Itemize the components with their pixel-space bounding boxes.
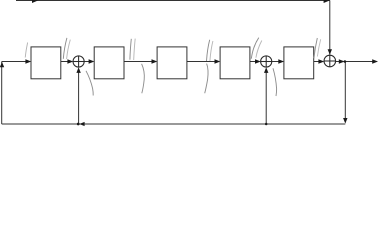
wire: right feedback vertical	[344, 62, 346, 120]
XOR U1	[73, 56, 84, 67]
arrowhead on top line	[32, 0, 38, 3]
wire: junction to output	[345, 61, 374, 63]
wire: left feedback vertical	[1, 62, 3, 125]
arrowhead up into XOR U2	[264, 67, 268, 73]
wire: XOR U1 to Z2	[84, 61, 89, 63]
arrowhead down into XOR U3	[328, 49, 332, 55]
wire: Z4 to XOR U2	[250, 61, 256, 63]
register Z3	[157, 47, 187, 79]
junction dot on bottom line below XOR U1	[77, 123, 80, 126]
tap slash pair after register Z4	[251, 38, 258, 59]
register Z1	[31, 47, 61, 79]
wire: Z3 to Z4	[187, 61, 216, 63]
wire: riser to XOR U1	[78, 72, 80, 124]
arrowhead into register Z5	[278, 59, 284, 63]
XOR U3	[324, 55, 336, 67]
wire: riser to XOR U2	[265, 72, 267, 124]
arrowhead on top line before corner	[324, 0, 330, 3]
arrowhead at output junction	[339, 59, 345, 63]
wire: bottom feedback line	[2, 123, 346, 125]
tap slash after register Z5	[314, 38, 317, 58]
register Z5	[284, 47, 314, 79]
tap slash lower arc before register Z5	[273, 68, 277, 96]
wire: XOR U2 to Z5	[272, 61, 280, 63]
tap slash lower arc before register Z2	[86, 71, 93, 96]
tap slash pair after register Z2	[130, 39, 131, 60]
faint tap slash before register Z1	[25, 43, 27, 58]
junction dot on bottom line below XOR U2	[265, 123, 268, 126]
tap slash pair after register Z1	[63, 38, 67, 59]
arrowhead at output end	[372, 59, 378, 63]
tap slash lower arc before register Z4	[205, 64, 208, 94]
wire: input segment into register Z1	[2, 61, 27, 63]
arrowhead left on bottom line at junction	[79, 122, 84, 126]
tap slash lower arc before register Z3	[142, 64, 145, 93]
junction dot at output split	[344, 60, 347, 63]
XOR U2	[261, 56, 272, 67]
arrowhead into register Z1	[25, 59, 31, 63]
wire: Z1 to XOR U1	[61, 61, 69, 63]
arrowhead down into bottom feedback line	[343, 118, 347, 124]
wire: XOR U3 to output junction	[336, 61, 340, 63]
register Z4	[220, 47, 250, 79]
arrowhead into register Z3	[152, 59, 158, 63]
wire: vertical from top line down to XOR U3	[329, 1, 331, 55]
wire: top input line	[16, 0, 330, 2]
arrowhead up at left feedback corner	[0, 62, 4, 67]
wire: Z2 to Z3	[124, 61, 153, 63]
arrowhead into XOR U3	[318, 59, 324, 63]
arrowhead up into XOR U1	[76, 67, 80, 73]
arrowhead into XOR U1	[67, 59, 73, 63]
arrowhead into XOR U2	[255, 59, 261, 63]
tap slash pair after register Z3	[207, 40, 210, 61]
arrowhead into register Z2	[89, 59, 95, 63]
register Z2	[94, 47, 124, 79]
wire: Z5 to XOR U3	[314, 61, 319, 63]
arrowhead into register Z4	[215, 59, 221, 63]
